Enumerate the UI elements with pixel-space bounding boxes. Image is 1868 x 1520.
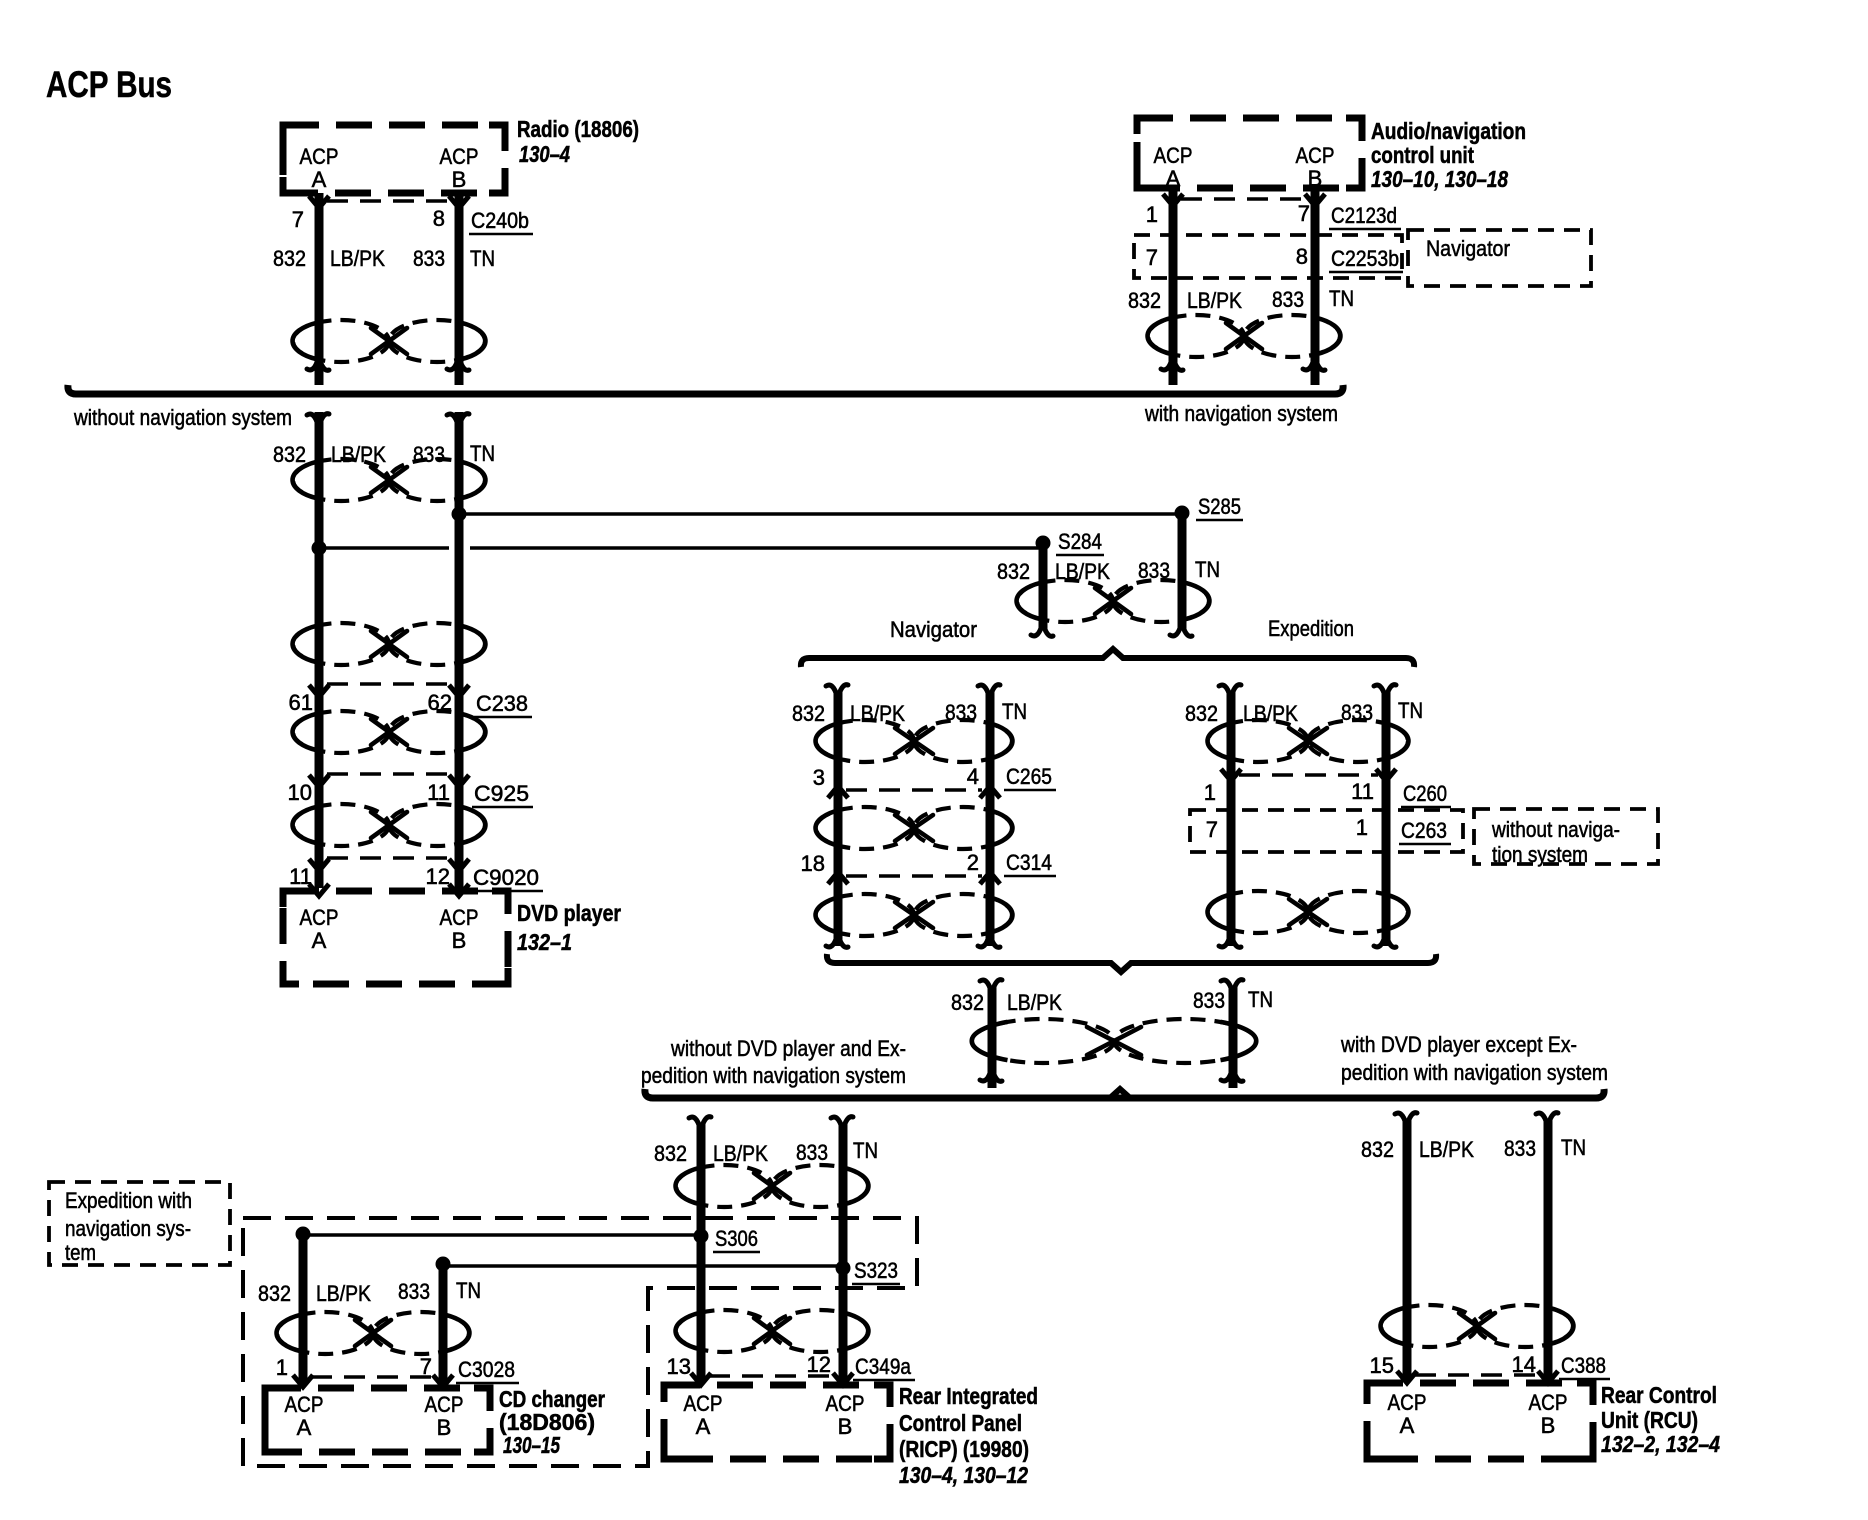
svg-text:833: 833 <box>796 1140 828 1165</box>
svg-text:ACP: ACP <box>300 905 339 930</box>
wire 832 LB/PK bus to RICP <box>697 1124 706 1381</box>
svg-text:12: 12 <box>807 1352 831 1377</box>
svg-text:ACP: ACP <box>1296 143 1335 168</box>
svg-text:with DVD player except Ex-: with DVD player except Ex- <box>1340 1032 1577 1057</box>
twisted pair symbol CD changer <box>277 1312 373 1354</box>
svg-text:8: 8 <box>433 206 445 231</box>
svg-text:11: 11 <box>427 780 450 805</box>
wire 832 LB/PK bus to DVD player <box>315 412 324 888</box>
component Radio (18806) <box>283 125 505 193</box>
svg-text:C260: C260 <box>1403 781 1447 806</box>
svg-text:C925: C925 <box>474 781 529 806</box>
wire 833 TN Navigator branch <box>986 692 995 946</box>
note box Expedition with navigation system <box>49 1182 230 1265</box>
svg-text:18: 18 <box>801 851 825 876</box>
svg-text:832: 832 <box>1361 1137 1394 1162</box>
svg-text:C9020: C9020 <box>473 865 539 890</box>
svg-text:C240b: C240b <box>471 208 529 233</box>
svg-text:LB/PK: LB/PK <box>316 1281 371 1306</box>
component Audio/navigation control unit <box>1137 118 1362 188</box>
svg-text:A: A <box>312 167 327 192</box>
connector C2253b box <box>1134 235 1402 278</box>
svg-text:TN: TN <box>1561 1135 1586 1160</box>
svg-text:832: 832 <box>273 246 306 271</box>
svg-text:pedition with navigation syste: pedition with navigation system <box>1341 1060 1608 1085</box>
svg-text:B: B <box>1541 1413 1556 1438</box>
svg-text:Audio/navigation: Audio/navigation <box>1371 118 1526 144</box>
wire 833 TN bus to RCU <box>1544 1120 1553 1379</box>
svg-text:C238: C238 <box>476 691 528 716</box>
svg-text:TN: TN <box>1195 557 1220 582</box>
svg-text:ACP: ACP <box>440 905 479 930</box>
wire 832 LB/PK Radio ACP-A to bus <box>315 193 324 385</box>
svg-text:14: 14 <box>1512 1352 1536 1377</box>
svg-text:pedition with navigation syste: pedition with navigation system <box>641 1063 906 1088</box>
svg-text:Control Panel: Control Panel <box>899 1410 1022 1436</box>
grouping outline Expedition with navigation system <box>243 1218 917 1466</box>
connector C260 arrowheads <box>1221 769 1241 781</box>
svg-text:LB/PK: LB/PK <box>1419 1137 1474 1162</box>
svg-text:TN: TN <box>1248 987 1273 1012</box>
svg-text:LB/PK: LB/PK <box>330 246 385 271</box>
svg-text:tion system: tion system <box>1492 842 1588 867</box>
svg-text:with navigation system: with navigation system <box>1144 401 1338 426</box>
wire splice link S306 to CD changer 832 <box>303 1233 701 1237</box>
svg-text:ACP Bus: ACP Bus <box>46 64 172 105</box>
svg-text:130–10, 130–18: 130–10, 130–18 <box>1371 166 1508 192</box>
svg-text:ACP: ACP <box>684 1391 723 1416</box>
svg-text:B: B <box>1308 166 1323 191</box>
svg-text:Expedition with: Expedition with <box>65 1188 192 1213</box>
svg-text:A: A <box>297 1415 312 1440</box>
svg-text:without DVD player and Ex-: without DVD player and Ex- <box>670 1036 906 1061</box>
svg-text:TN: TN <box>470 246 495 271</box>
twisted pair symbol navigator 3 <box>816 894 914 936</box>
svg-text:TN: TN <box>470 441 495 466</box>
svg-text:LB/PK: LB/PK <box>1007 990 1062 1015</box>
connector C925 arrowheads <box>309 775 329 787</box>
twisted pair symbol dvd chain 4 <box>293 804 389 846</box>
connector C388 dashed line <box>1415 1373 1540 1377</box>
svg-text:130–4, 130–12: 130–4, 130–12 <box>899 1462 1028 1488</box>
twisted pair symbol expedition 1 <box>1208 720 1308 762</box>
bracket under Navigator and Expedition branches <box>827 954 1436 972</box>
svg-text:832: 832 <box>258 1281 291 1306</box>
note box without navigation system <box>1474 809 1658 864</box>
svg-text:Rear Integrated: Rear Integrated <box>899 1383 1038 1409</box>
twisted pair symbol dvd chain 3 <box>293 711 389 753</box>
connector C314 dashed line <box>846 874 982 878</box>
wire 833 TN Radio ACP-B to bus <box>455 193 464 385</box>
twisted pair symbol audio-nav <box>1148 315 1244 357</box>
connector C2123d arrowheads <box>1163 194 1183 206</box>
DVD player box entry arrowheads <box>309 884 329 896</box>
connector C388 arrowheads <box>1397 1371 1417 1383</box>
connector C9020 dashed line <box>327 856 451 860</box>
connector C240b dashed line <box>327 199 451 203</box>
twisted pair symbol dvd chain 1 <box>293 459 389 501</box>
svg-text:ACP: ACP <box>1388 1390 1427 1415</box>
svg-text:832: 832 <box>792 701 825 726</box>
junction dot on CD changer 832 <box>296 1227 311 1242</box>
wire 832 LB/PK bus to RCU <box>1403 1120 1412 1379</box>
bus line ACP bus upper <box>68 385 1343 394</box>
wire 833 TN Expedition branch <box>1382 692 1391 946</box>
svg-text:1: 1 <box>1146 202 1158 227</box>
svg-text:C388: C388 <box>1561 1353 1606 1378</box>
svg-text:832: 832 <box>951 990 984 1015</box>
svg-text:C265: C265 <box>1006 764 1052 789</box>
svg-text:A: A <box>312 928 327 953</box>
splice S284 dot <box>1036 536 1051 551</box>
svg-text:S285: S285 <box>1198 494 1241 519</box>
svg-text:A: A <box>1166 166 1181 191</box>
svg-text:C314: C314 <box>1006 850 1052 875</box>
svg-text:8: 8 <box>1296 244 1308 269</box>
svg-text:833: 833 <box>1504 1136 1536 1161</box>
svg-text:LB/PK: LB/PK <box>1187 288 1242 313</box>
svg-text:C2123d: C2123d <box>1331 203 1397 228</box>
wire 833 TN Audio-nav ACP-B to bus <box>1311 188 1320 385</box>
svg-text:ACP: ACP <box>285 1392 324 1417</box>
svg-text:control unit: control unit <box>1371 142 1474 168</box>
twisted pair symbol radio <box>293 320 389 362</box>
svg-text:130–15: 130–15 <box>503 1432 561 1458</box>
svg-text:832: 832 <box>997 559 1030 584</box>
splice S306 dot <box>694 1229 709 1244</box>
bracket over Navigator and Expedition branches <box>801 649 1414 667</box>
svg-text:832: 832 <box>1185 701 1218 726</box>
wire splice link to S285 <box>459 512 1182 516</box>
svg-text:832: 832 <box>273 442 306 467</box>
splice S323 dot <box>836 1261 851 1276</box>
svg-text:(RICP) (19980): (RICP) (19980) <box>899 1436 1029 1462</box>
svg-text:ACP: ACP <box>425 1392 464 1417</box>
connector C260 dashed line <box>1239 773 1378 777</box>
twisted pair symbol expedition 2 <box>1208 891 1308 933</box>
svg-text:833: 833 <box>413 246 445 271</box>
wire 832 LB/PK Expedition branch <box>1227 692 1236 946</box>
svg-text:7: 7 <box>1146 245 1158 270</box>
svg-text:TN: TN <box>1002 699 1027 724</box>
splice S285 dot <box>1175 506 1190 521</box>
splice junction on 832 wire to S284 <box>312 541 327 556</box>
note box Navigator <box>1408 230 1591 286</box>
svg-text:ACP: ACP <box>1154 143 1193 168</box>
svg-text:132–1: 132–1 <box>517 929 572 955</box>
connector C925 dashed line <box>327 772 451 776</box>
wire 833 TN bracket to lower bus <box>1229 987 1238 1088</box>
svg-text:ACP: ACP <box>440 144 479 169</box>
svg-text:10: 10 <box>288 780 312 805</box>
connector C3028 arrowheads <box>293 1375 313 1387</box>
connector C2123d dashed line <box>1181 197 1307 201</box>
svg-text:7: 7 <box>1206 817 1218 842</box>
svg-text:LB/PK: LB/PK <box>1243 701 1298 726</box>
svg-text:Rear Control: Rear Control <box>1601 1382 1717 1408</box>
svg-text:3: 3 <box>813 765 825 790</box>
svg-text:B: B <box>452 167 467 192</box>
svg-text:LB/PK: LB/PK <box>713 1141 768 1166</box>
svg-text:TN: TN <box>1398 698 1423 723</box>
component CD changer <box>265 1388 490 1452</box>
svg-text:B: B <box>452 928 467 953</box>
svg-text:4: 4 <box>967 764 979 789</box>
svg-text:B: B <box>437 1415 452 1440</box>
component Rear Control Unit <box>1367 1383 1593 1459</box>
connector C349a arrowheads <box>691 1373 711 1385</box>
svg-text:132–2, 132–4: 132–2, 132–4 <box>1601 1431 1720 1457</box>
svg-text:ACP: ACP <box>826 1391 865 1416</box>
svg-text:C263: C263 <box>1401 818 1447 843</box>
connector C9020 arrowheads <box>309 859 329 871</box>
svg-text:A: A <box>1400 1413 1415 1438</box>
connector C238 arrowheads <box>309 685 329 697</box>
svg-text:without naviga-: without naviga- <box>1491 817 1620 842</box>
wire 833 TN to CD changer <box>439 1264 448 1384</box>
bus line ACP bus lower <box>645 1089 1604 1098</box>
svg-text:without navigation system: without navigation system <box>73 405 292 430</box>
svg-text:Navigator: Navigator <box>1426 236 1510 261</box>
svg-text:61: 61 <box>289 690 313 715</box>
svg-text:130–4: 130–4 <box>519 141 570 167</box>
wire 833 TN stub below S285 <box>1178 516 1187 630</box>
wire 833 TN bus to RICP <box>839 1124 848 1381</box>
connector C314 arrowheads <box>828 872 848 884</box>
svg-text:tem: tem <box>65 1240 96 1265</box>
svg-text:A: A <box>696 1414 711 1439</box>
wire 833 TN bus to DVD player <box>455 412 464 888</box>
svg-text:Unit (RCU): Unit (RCU) <box>1601 1407 1698 1433</box>
svg-text:ACP: ACP <box>300 144 339 169</box>
svg-text:ACP: ACP <box>1529 1390 1568 1415</box>
svg-text:1: 1 <box>1204 780 1216 805</box>
wire 832 LB/PK stub below S284 <box>1039 546 1048 630</box>
connector C265 dashed line <box>846 788 982 792</box>
svg-text:833: 833 <box>1272 287 1304 312</box>
svg-text:832: 832 <box>1128 288 1161 313</box>
svg-text:S284: S284 <box>1058 529 1102 554</box>
svg-text:C2253b: C2253b <box>1331 246 1399 271</box>
svg-text:1: 1 <box>276 1355 288 1380</box>
svg-text:TN: TN <box>456 1278 481 1303</box>
svg-text:12: 12 <box>426 864 450 889</box>
connector C263 box <box>1190 810 1463 852</box>
svg-text:7: 7 <box>292 207 304 232</box>
connector C3028 dashed line <box>311 1375 437 1379</box>
connector C238 dashed line <box>327 682 451 686</box>
twisted pair symbol splice stub <box>1017 580 1113 622</box>
junction dot on CD changer 833 <box>436 1257 451 1272</box>
svg-text:DVD player: DVD player <box>517 900 621 926</box>
svg-text:S323: S323 <box>854 1258 898 1283</box>
svg-text:C3028: C3028 <box>458 1357 515 1382</box>
svg-text:833: 833 <box>1193 988 1225 1013</box>
svg-text:LB/PK: LB/PK <box>850 701 905 726</box>
svg-text:S306: S306 <box>715 1226 758 1251</box>
twisted pair symbol RICP 1 <box>676 1165 772 1207</box>
wire 832 LB/PK to CD changer <box>299 1234 308 1384</box>
svg-text:B: B <box>838 1414 853 1439</box>
twisted pair symbol navigator 1 <box>816 720 914 762</box>
svg-text:TN: TN <box>1329 286 1354 311</box>
wire 832 LB/PK Audio-nav ACP-A to bus <box>1169 188 1178 385</box>
svg-text:navigation sys-: navigation sys- <box>65 1216 191 1241</box>
splice junction on 833 wire to S285 <box>452 507 467 522</box>
svg-text:Navigator: Navigator <box>890 617 977 642</box>
svg-text:C349a: C349a <box>855 1354 912 1379</box>
wire splice link S323 to CD changer 833 <box>443 1264 843 1268</box>
twisted pair symbol dvd chain 2 <box>293 623 389 665</box>
wire 832 LB/PK Navigator branch <box>834 692 843 946</box>
svg-text:833: 833 <box>398 1279 430 1304</box>
wire 832 LB/PK bracket to lower bus <box>988 987 997 1088</box>
svg-text:832: 832 <box>654 1141 687 1166</box>
svg-text:13: 13 <box>667 1354 691 1379</box>
twisted pair symbol wide pair <box>972 1019 1114 1063</box>
twisted pair symbol navigator 2 <box>816 807 914 849</box>
svg-text:LB/PK: LB/PK <box>331 442 386 467</box>
svg-text:833: 833 <box>413 442 445 467</box>
svg-text:2: 2 <box>967 850 979 875</box>
svg-text:11: 11 <box>1351 779 1374 804</box>
svg-text:1: 1 <box>1356 815 1368 840</box>
connector C265 arrowheads <box>828 786 848 798</box>
component DVD player <box>283 891 508 984</box>
svg-text:Expedition: Expedition <box>1268 616 1354 641</box>
component Rear Integrated Control Panel <box>664 1385 890 1459</box>
svg-text:15: 15 <box>1370 1353 1394 1378</box>
connector C349a dashed line <box>709 1374 835 1378</box>
wire splice link to S284 <box>319 546 449 550</box>
connector C240b arrowheads <box>309 196 329 208</box>
twisted pair symbol RICP 2 <box>676 1310 772 1352</box>
svg-text:LB/PK: LB/PK <box>1055 559 1110 584</box>
twisted pair symbol RCU <box>1381 1305 1477 1347</box>
svg-text:TN: TN <box>853 1138 878 1163</box>
svg-text:7: 7 <box>420 1354 432 1379</box>
svg-text:7: 7 <box>1298 201 1310 226</box>
svg-text:Radio (18806): Radio (18806) <box>517 116 639 142</box>
